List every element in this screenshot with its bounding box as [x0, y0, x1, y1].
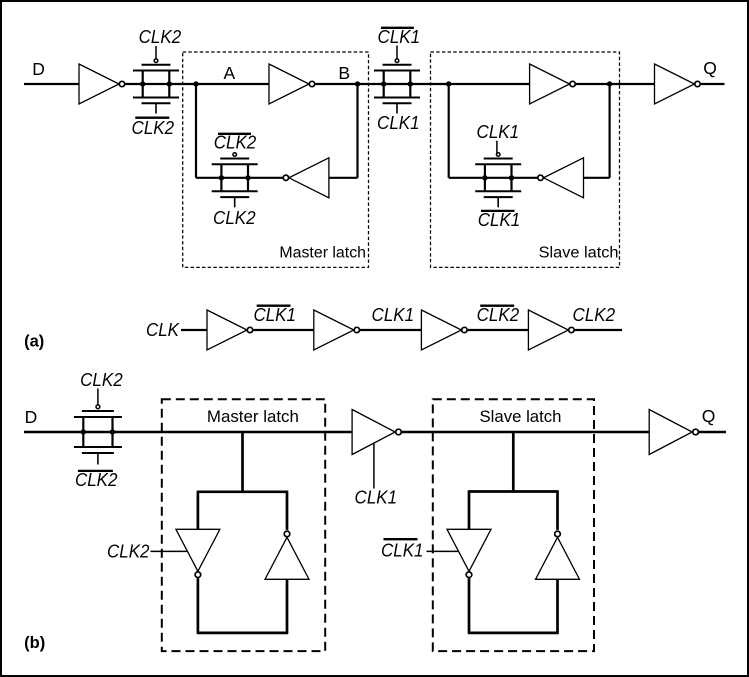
label CLK1-bar U14	[381, 539, 424, 560]
node A junction dot	[193, 81, 198, 86]
node C junction dot slave input	[446, 81, 451, 86]
label CLK2-bar TG5 bottom	[75, 469, 118, 490]
svg-text:Master latch: Master latch	[207, 408, 299, 426]
svg-text:CLK2: CLK2	[573, 304, 616, 325]
inverter U16 output buffer (b)	[649, 410, 698, 455]
wire master loop bottom	[197, 632, 289, 635]
master latch dashed box (b)	[162, 399, 325, 651]
wire slave loop right upper	[556, 492, 559, 530]
svg-text:CLK1: CLK1	[372, 304, 415, 325]
svg-text:(b): (b)	[24, 634, 45, 652]
wire D input to master latch (b)	[24, 431, 352, 433]
transmission gate TG2	[374, 59, 420, 114]
transmission gate TG1	[133, 59, 179, 114]
inverter U3 slave forward	[530, 64, 576, 104]
label CLK1-bar net	[253, 304, 296, 325]
wire node A feedback vertical	[195, 84, 197, 178]
svg-text:B: B	[338, 63, 350, 83]
wire U1 output to node A through transmission gate	[125, 83, 269, 85]
wire node B feedback vertical	[356, 84, 358, 178]
wire U8 to U9	[360, 329, 421, 331]
inverter U13 between latches	[352, 410, 401, 455]
svg-text:CLK1: CLK1	[381, 540, 424, 561]
svg-text:Slave latch: Slave latch	[539, 244, 619, 261]
svg-text:CLK2: CLK2	[139, 26, 182, 47]
tristate inverter U12 master (up)	[265, 531, 309, 579]
wire node D feedback vertical	[608, 84, 610, 178]
tristate inverter U11 master (down)	[176, 529, 220, 577]
svg-text:Master latch: Master latch	[279, 244, 366, 261]
wire slave loop top	[468, 490, 559, 493]
label CLK1-bar TG4 bottom	[478, 209, 521, 230]
tristate inverter U15 slave (up)	[536, 531, 580, 579]
wire CLK1 input to U13	[373, 443, 375, 489]
svg-text:A: A	[223, 63, 235, 83]
label CLK1-bar TG2 top	[378, 26, 421, 47]
wire U13 output to slave latch	[402, 431, 649, 433]
wire Q output (b)	[699, 431, 726, 433]
wire slave loop right lower	[556, 579, 559, 633]
wire CLK input	[181, 329, 207, 331]
svg-text:CLK: CLK	[146, 319, 181, 340]
wire master loop stem	[241, 432, 244, 492]
svg-text:(a): (a)	[24, 332, 44, 350]
svg-text:CLK1: CLK1	[355, 486, 398, 507]
transmission gate TG5 input (b)	[74, 405, 122, 465]
wire node C feedback vertical	[448, 84, 450, 178]
svg-text:CLK2: CLK2	[132, 117, 175, 138]
label CLK2-bar net	[477, 304, 520, 325]
svg-text:Q: Q	[702, 406, 716, 426]
svg-text:CLK2: CLK2	[80, 369, 123, 390]
wire master loop right upper	[286, 492, 289, 530]
svg-text:D: D	[25, 407, 38, 427]
inverter U9 clock chain 3	[421, 310, 467, 350]
node D junction dot slave output	[607, 81, 612, 86]
svg-text:CLK1: CLK1	[478, 209, 521, 230]
wire U3 output to output inverter	[576, 83, 655, 85]
wire TG2 PMOS gate stub	[396, 46, 398, 59]
inverter U10 clock chain 4	[528, 310, 574, 350]
svg-text:CLK1: CLK1	[378, 26, 421, 47]
transmission gate TG3 master feedback	[212, 153, 258, 208]
inverter U5 master feedback	[283, 158, 329, 198]
tristate inverter U14 slave (down)	[447, 529, 491, 577]
wire U9 to U10	[468, 329, 529, 331]
wire TG4 PMOS gate stub	[496, 141, 498, 154]
wire CLK2 input to U11	[151, 550, 188, 552]
wire U6 input from node D	[584, 177, 610, 179]
wire master loop right lower	[286, 579, 289, 633]
wire master loop top	[197, 490, 289, 493]
wire slave loop bottom	[468, 632, 559, 635]
svg-text:CLK1: CLK1	[377, 112, 420, 133]
inverter U1 input buffer	[79, 64, 125, 104]
wire CLK1-bar input to U14	[427, 550, 459, 552]
inverter U6 slave feedback	[538, 158, 584, 198]
svg-text:CLK1: CLK1	[253, 304, 296, 325]
transmission gate TG4 slave feedback	[475, 153, 521, 208]
wire U7 to U8	[253, 329, 313, 331]
wire slave loop stem	[512, 432, 515, 492]
wire U2 output to slave through TG2	[315, 83, 529, 85]
svg-text:Slave latch: Slave latch	[480, 408, 562, 426]
master latch dashed box	[183, 52, 369, 267]
label CLK2-bar TG3 top	[214, 132, 257, 153]
slave latch dashed box (b)	[433, 399, 594, 651]
svg-text:D: D	[32, 59, 45, 79]
wire D input	[24, 83, 79, 85]
svg-text:CLK1: CLK1	[477, 121, 520, 142]
wire TG1 PMOS gate stub	[155, 46, 157, 59]
svg-text:Q: Q	[703, 58, 717, 78]
inverter U2 master forward	[269, 64, 315, 104]
wire master loop left lower	[197, 578, 200, 633]
wire master loop left upper	[197, 492, 200, 530]
wire Q output	[701, 83, 725, 85]
svg-text:CLK2: CLK2	[107, 541, 150, 562]
inverter U7 clock chain 1	[207, 310, 253, 350]
svg-text:CLK2: CLK2	[213, 207, 256, 228]
wire U5 input from node B	[329, 177, 358, 179]
svg-text:CLK2: CLK2	[477, 304, 520, 325]
svg-text:CLK2: CLK2	[75, 469, 118, 490]
inverter U4 output buffer	[655, 64, 701, 104]
wire feedback to master TG3	[196, 177, 283, 179]
svg-text:CLK2: CLK2	[214, 132, 257, 153]
wire CLK2 output	[575, 329, 622, 331]
wire slave loop left upper	[468, 492, 471, 530]
label CLK2-bar TG1 bottom	[132, 117, 175, 138]
wire TG5 PMOS gate stub	[97, 389, 99, 405]
inverter U8 clock chain 2	[314, 310, 360, 350]
wire slave loop left lower	[468, 578, 471, 633]
wire feedback to slave TG4	[449, 177, 538, 179]
slave latch dashed box	[431, 52, 620, 267]
node B junction dot	[355, 81, 360, 86]
